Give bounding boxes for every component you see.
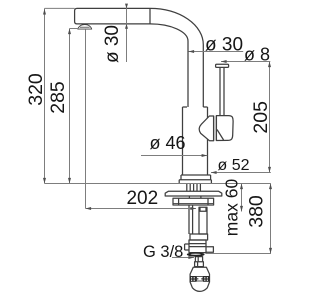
- leader ø46: [141, 155, 207, 157]
- arrow ø30 leader: [189, 50, 195, 53]
- svg-text:380: 380: [245, 195, 267, 228]
- connector neck: [195, 257, 204, 267]
- extension line hose end: [206, 253, 272, 255]
- mounting nut: [173, 198, 214, 205]
- fitting left tab: [185, 244, 189, 250]
- arrow 285 top: [68, 29, 71, 35]
- svg-text:205: 205: [250, 101, 272, 134]
- centerline aerator axis: [85, 29, 87, 208]
- left hose lines: [189, 205, 193, 234]
- base ring: [181, 175, 211, 180]
- guide tube top block: [199, 207, 207, 211]
- arrow ø30dim top: [125, 4, 128, 9]
- handle lever: [216, 116, 233, 141]
- shank stub below washer: [189, 196, 201, 198]
- svg-text:ø 30: ø 30: [205, 35, 243, 56]
- svg-text:285: 285: [47, 81, 69, 114]
- rod cap: [216, 64, 229, 67]
- body: [183, 107, 208, 175]
- svg-text:320: 320: [25, 73, 47, 106]
- lower fitting: [189, 240, 206, 253]
- countertop line: [45, 183, 271, 185]
- svg-text:max 60: max 60: [222, 179, 242, 237]
- svg-text:202: 202: [126, 188, 158, 209]
- arrow ø46 leader: [202, 154, 208, 157]
- base plate: [179, 180, 211, 184]
- dim line 380: [270, 184, 272, 254]
- barrel band dots: [191, 277, 208, 281]
- barrel band center window: [197, 277, 204, 281]
- spray rod: [220, 67, 224, 116]
- leader G3/8: [172, 257, 194, 259]
- leader ø52: [211, 172, 271, 174]
- top extension line: [45, 7, 75, 9]
- dim line 320: [44, 8, 46, 183]
- svg-text:ø 52: ø 52: [218, 157, 250, 174]
- arrow ø8 leader: [221, 60, 227, 63]
- arrow 205 top: [268, 62, 271, 68]
- shank lines under counter: [187, 184, 201, 191]
- arrow 202 right: [190, 207, 196, 210]
- dim line 202: [86, 208, 197, 210]
- arrow ø52 leader: [211, 171, 217, 174]
- hose junction block: [190, 234, 208, 240]
- dim line for rotated ø30: [126, 5, 128, 63]
- handle lever diagonal: [217, 130, 224, 141]
- arrow G3/8 leader: [188, 256, 194, 259]
- window inner marks: [197, 278, 198, 280]
- handle collar: [214, 116, 217, 141]
- washer plate: [165, 191, 222, 196]
- arrow 320 bottom: [43, 178, 46, 184]
- right guide tube: [199, 207, 207, 234]
- arrow max60 top: [240, 184, 243, 190]
- barrel dark band right: [203, 276, 210, 282]
- dim line 285: [69, 29, 71, 184]
- hose end barrel: [190, 267, 209, 291]
- arrow 205 bottom: [268, 167, 271, 173]
- fitting side branch: [206, 247, 213, 252]
- leader ø30: [189, 51, 244, 53]
- dim line max60: [241, 184, 243, 212]
- nut shade line: [173, 203, 214, 205]
- arrow ø30dim bottom: [125, 24, 128, 29]
- barrel dark band left: [190, 276, 197, 282]
- svg-text:ø 30: ø 30: [102, 25, 123, 63]
- svg-text:ø 8: ø 8: [244, 44, 270, 64]
- arrow 285 bottom: [68, 178, 71, 184]
- arrow 320 top: [43, 9, 46, 15]
- spout tube and elbow outline: [75, 8, 204, 107]
- aerator: [78, 25, 92, 30]
- arrow max60 bottom: [240, 206, 243, 212]
- fitting dark ellipse: [187, 252, 205, 256]
- svg-text:ø 46: ø 46: [150, 133, 186, 153]
- arrow 380 top: [269, 184, 272, 190]
- extension line 285: [70, 28, 79, 30]
- arrow 202 left: [86, 207, 92, 210]
- arrow 380 bottom: [269, 248, 272, 254]
- elbow joint line: [149, 8, 151, 24]
- handle wedge: [199, 116, 213, 141]
- leader ø8: [221, 61, 270, 63]
- dim line 205: [269, 62, 271, 173]
- svg-text:G 3/8: G 3/8: [143, 243, 183, 261]
